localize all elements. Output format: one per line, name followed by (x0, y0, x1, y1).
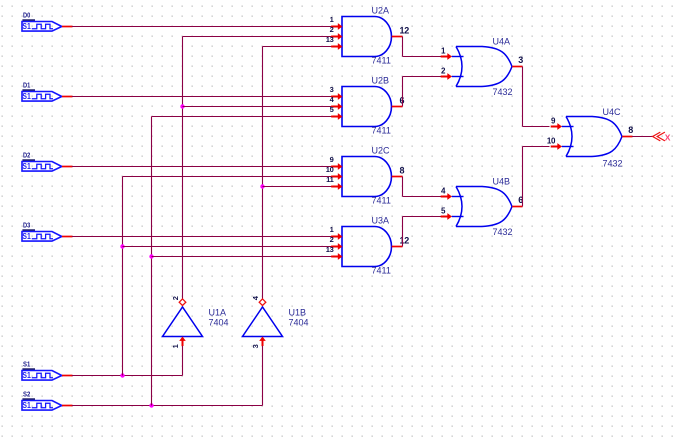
svg-text:7404: 7404 (209, 318, 229, 328)
svg-text:7411: 7411 (372, 56, 391, 66)
pin arrow U4A pin 1 (441, 53, 452, 60)
wire U2C out to U4B pin 4 (403, 177, 442, 197)
off-page connector X chevrons (653, 132, 665, 141)
pin arrow U2B pin 4 (331, 103, 342, 110)
wire U2B out to U4A pin 2 (403, 77, 442, 107)
wire net X (632, 136, 653, 138)
wire net D2 to U2C pin 9 (72, 166, 332, 168)
svg-text:13: 13 (326, 35, 334, 44)
OR gate U4B (7432) (441, 177, 524, 238)
wire net S2bar vertical (262, 47, 264, 299)
svg-text:1: 1 (171, 344, 180, 348)
svg-text:5: 5 (330, 105, 334, 114)
wire net S1 rise to U1A input (182, 344, 184, 375)
pin arrow U4C pin 10 (551, 143, 562, 150)
pin arrow U4A pin 2 (441, 73, 452, 80)
svg-text:7432: 7432 (493, 87, 513, 97)
stimulus DSTM2 input D1 (22, 80, 73, 101)
wire U2A out to U4A pin 1 (403, 37, 442, 57)
wire net S2 to U2B pin 5 (152, 116, 333, 118)
wire net S1bar vertical (182, 37, 184, 299)
pin arrow U4C pin 9 (551, 123, 562, 130)
wire net D3 to U3A pin 1 (72, 236, 332, 238)
OR gate U4C (7432) (547, 107, 633, 169)
svg-text:3: 3 (251, 344, 260, 348)
svg-text:U4B: U4B (493, 177, 511, 187)
pin arrow U2C pin 11 (331, 183, 342, 190)
AND gate U2C (7411) (326, 145, 405, 205)
wire net S1bar to U2B pin 4 (183, 106, 333, 108)
svg-text:S1: S1 (22, 22, 31, 31)
wire net S2 to U3A pin 13 (152, 256, 333, 258)
wire U4A out to U4C pin 9 (523, 67, 550, 127)
svg-text:10: 10 (326, 165, 334, 174)
wire net S1bar to U2A pin 2 (183, 36, 333, 38)
svg-text:13: 13 (326, 245, 334, 254)
wire net S2 vertical branch (151, 117, 153, 406)
pin arrow U4B pin 5 (441, 213, 452, 220)
svg-text:1: 1 (330, 15, 334, 24)
svg-text:U2A: U2A (372, 5, 390, 15)
wire net S1 vertical branch (122, 177, 124, 376)
pin arrow U2C pin 10 (331, 173, 342, 180)
wire net S2bar to U2A pin 13 (263, 46, 333, 48)
svg-text:2: 2 (330, 25, 334, 34)
svg-text:7411: 7411 (372, 196, 391, 206)
wire net S1 to U2C pin 10 (123, 176, 333, 178)
junction S2 to U3A pin 13 (149, 254, 153, 258)
svg-text:U4A: U4A (493, 37, 511, 47)
wire net D0 to U2A pin 1 (72, 26, 332, 28)
pin arrow U2A pin 13 (331, 43, 342, 50)
AND gate U2B (7411) (330, 75, 405, 135)
svg-text:U2B: U2B (372, 75, 390, 85)
AND gate U3A (7411) (326, 215, 410, 275)
svg-text:2: 2 (171, 296, 180, 300)
wire net S1 to U3A pin 2 (123, 246, 333, 248)
junction S1 branch (120, 373, 124, 377)
junction S1 to U3A pin 2 (120, 244, 124, 248)
svg-text:2: 2 (330, 235, 334, 244)
svg-text:U4C: U4C (603, 107, 622, 117)
pin arrow U2C pin 9 (331, 163, 342, 170)
svg-text:U2C: U2C (372, 145, 391, 155)
svg-text:S1: S1 (22, 92, 31, 101)
wire net S1 horizontal (72, 375, 183, 377)
svg-text:1: 1 (330, 225, 334, 234)
stimulus DSTM6 input S2 (22, 389, 73, 410)
wire U3A out to U4B pin 5 (403, 217, 442, 247)
wire net D1 to U2B pin 3 (72, 96, 332, 98)
stimulus DSTM4 input D3 (22, 220, 73, 241)
inverter U1A (7404) (163, 296, 229, 348)
pin arrow U2B pin 5 (331, 113, 342, 120)
pin arrow U3A pin 2 (331, 243, 342, 250)
pin arrow U2A pin 2 (331, 33, 342, 40)
svg-text:U1A: U1A (209, 307, 227, 317)
svg-text:7411: 7411 (372, 126, 391, 136)
svg-text:S1: S1 (22, 162, 31, 171)
svg-text:D0: D0 (23, 10, 30, 19)
svg-text:12: 12 (400, 25, 410, 35)
svg-text:U3A: U3A (372, 215, 390, 225)
svg-text:D3: D3 (23, 220, 30, 229)
AND gate U2A (7411) (326, 5, 410, 65)
junction S1bar to U2B pin 4 (180, 104, 184, 108)
svg-text:7411: 7411 (372, 266, 391, 276)
svg-text:X: X (665, 132, 671, 142)
pin arrow U3A pin 1 (331, 233, 342, 240)
pin arrow U4B pin 4 (441, 193, 452, 200)
svg-text:D1: D1 (23, 80, 30, 89)
svg-text:U1B: U1B (289, 307, 307, 317)
svg-text:S1: S1 (22, 401, 31, 410)
svg-text:10: 10 (547, 136, 556, 145)
svg-text:S1: S1 (22, 232, 31, 241)
net label X (665, 132, 671, 142)
svg-text:S1: S1 (23, 359, 30, 368)
wire net S2 rise to U1B input (262, 344, 264, 405)
svg-text:7432: 7432 (603, 159, 623, 169)
svg-text:8: 8 (628, 125, 633, 135)
svg-text:7432: 7432 (493, 227, 513, 237)
wire net S2bar to U2C pin 11 (263, 186, 333, 188)
svg-text:9: 9 (330, 155, 334, 164)
svg-text:3: 3 (330, 85, 334, 94)
svg-text:12: 12 (400, 235, 410, 245)
wire U4B out to U4C pin 10 (523, 147, 550, 207)
inverter U1B (7404) (243, 295, 309, 348)
pin arrow U2A pin 1 (331, 23, 342, 30)
pin arrow U3A pin 13 (331, 253, 342, 260)
wire net S2 horizontal (72, 405, 263, 407)
junction S2 branch (149, 403, 153, 407)
svg-text:11: 11 (326, 175, 333, 184)
junction S2bar to U2C pin 11 (260, 184, 264, 188)
svg-text:D2: D2 (23, 150, 30, 159)
OR gate U4A (7432) (441, 37, 524, 98)
pin arrow U2B pin 3 (331, 93, 342, 100)
stimulus DSTM3 input D2 (22, 150, 73, 171)
svg-text:3: 3 (518, 55, 523, 65)
stimulus DSTM5 input S1 (22, 359, 73, 380)
svg-text:S2: S2 (23, 389, 30, 398)
svg-text:S1: S1 (22, 371, 31, 380)
svg-text:7404: 7404 (289, 318, 309, 328)
svg-text:8: 8 (400, 165, 405, 175)
stimulus DSTM1 input D0 (22, 10, 73, 31)
